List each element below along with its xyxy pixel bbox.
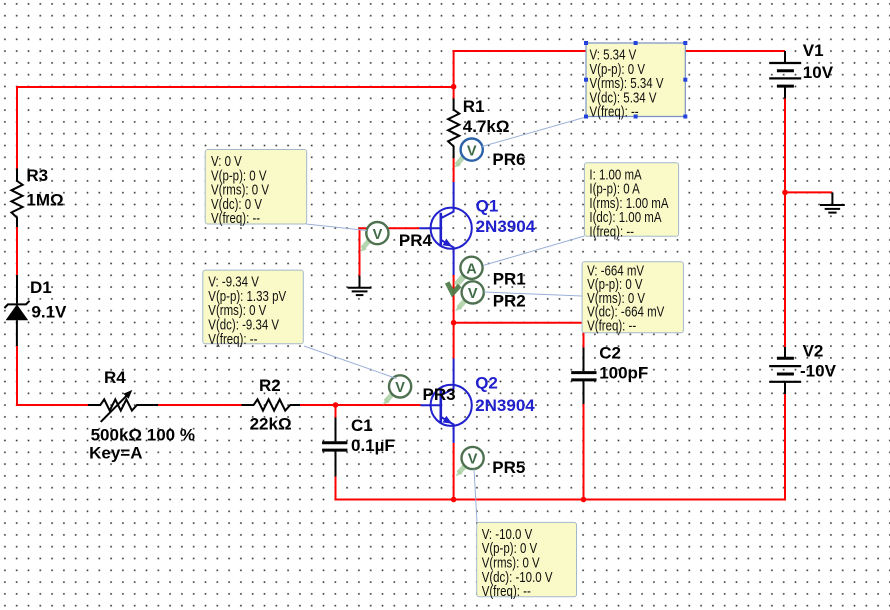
svg-text:V: V (467, 143, 477, 159)
probe readout PR1 box (584, 163, 678, 241)
svg-text:PR1: PR1 (493, 269, 526, 288)
battery V1 (784, 51, 786, 63)
svg-text:1MΩ: 1MΩ (26, 191, 63, 210)
resistor R3 (11, 169, 22, 228)
junction node C1 top (333, 402, 339, 408)
wire V1 bottom to ground node (784, 99, 786, 193)
svg-text:PR5: PR5 (492, 458, 525, 477)
svg-text:I(freq): --: I(freq): -- (589, 224, 634, 241)
svg-text:C1: C1 (351, 416, 373, 435)
svg-text:PR4: PR4 (399, 231, 433, 250)
svg-text:-10V: -10V (800, 362, 837, 381)
svg-text:100pF: 100pF (599, 364, 648, 383)
junction node bottom rail C2 (581, 497, 587, 503)
wire ground node to V2 (784, 192, 786, 347)
callout line PR5 (474, 469, 477, 522)
wire R1 bottom to Q1 collector (453, 158, 455, 182)
svg-text:Key=A: Key=A (89, 444, 142, 463)
wire Q1 emitter node (453, 275, 455, 323)
svg-text:C2: C2 (599, 344, 621, 363)
resistor R1 (448, 99, 459, 159)
junction node R1 top (451, 84, 457, 90)
svg-text:V(freq): --: V(freq): -- (208, 331, 257, 348)
probe PR1 attach arrow (456, 276, 464, 285)
svg-text:2N3904: 2N3904 (475, 396, 535, 415)
svg-text:4.7kΩ: 4.7kΩ (463, 117, 510, 136)
probe PR5 (462, 447, 484, 469)
wire R4 to R2 (158, 404, 242, 406)
wire R2 to Q2 base (300, 404, 421, 406)
wire top-left rail (17, 87, 454, 169)
probe PR4 attach (363, 240, 370, 249)
svg-text:A: A (466, 262, 477, 278)
probe PR2 attach (459, 301, 466, 309)
wire C2 bottom (583, 404, 585, 500)
ground (Q1 base) (348, 276, 372, 296)
wire Q2 emitter to bottom rail (453, 443, 455, 500)
probe readout PR4 box (205, 150, 307, 228)
transistor Q2 (421, 359, 472, 444)
capacitor C1 (335, 418, 337, 442)
svg-text:R1: R1 (463, 97, 485, 116)
probe PR3 attach (386, 394, 393, 402)
junction node V1 ground (782, 190, 788, 196)
svg-text:V: V (395, 380, 405, 396)
probe PR6 (461, 139, 483, 161)
svg-text:0.1µF: 0.1µF (351, 436, 395, 455)
callout line PR3 (304, 346, 397, 379)
svg-text:V(freq): --: V(freq): -- (590, 104, 639, 121)
svg-text:V(freq): --: V(freq): -- (482, 583, 531, 600)
svg-text:V(freq): --: V(freq): -- (587, 317, 636, 334)
capacitor C2 (583, 348, 585, 372)
svg-text:R2: R2 (259, 376, 281, 395)
svg-text:V1: V1 (803, 41, 824, 60)
svg-text:V(freq): --: V(freq): -- (211, 210, 260, 227)
svg-text:Q1: Q1 (476, 196, 499, 215)
probe PR3 (389, 375, 411, 397)
callout line PR2 (484, 292, 582, 296)
probe PR5 attach (459, 466, 466, 473)
svg-text:V2: V2 (803, 341, 824, 360)
svg-text:PR2: PR2 (493, 292, 526, 311)
probe readout PR5 box (477, 522, 577, 600)
junction node bottom rail Q2 (451, 497, 457, 503)
svg-text:Q2: Q2 (475, 374, 498, 393)
svg-text:10V: 10V (803, 63, 834, 82)
svg-text:R4: R4 (104, 368, 126, 387)
wire left vertical D1 to bottom rail and to R4 (17, 346, 88, 405)
probe PR6 attach (457, 157, 464, 166)
wire mid rail to C2 (454, 323, 584, 348)
zener diode D1 (16, 275, 18, 303)
probe PR2 (462, 281, 484, 303)
wire left vertical between R3 and D1 (16, 227, 18, 275)
resistor R2 (242, 399, 301, 410)
svg-text:PR3: PR3 (423, 385, 456, 404)
battery V2 (784, 347, 786, 358)
wire Q1 base (360, 228, 420, 275)
callout line PR4 (306, 224, 367, 231)
callout line PR1 (483, 236, 584, 266)
svg-text:PR6: PR6 (492, 150, 525, 169)
wire bottom rail (336, 394, 786, 500)
svg-text:2N3904: 2N3904 (476, 217, 536, 236)
svg-text:22kΩ: 22kΩ (250, 414, 292, 433)
svg-text:V: V (468, 286, 478, 302)
svg-text:500kΩ 100 %: 500kΩ 100 % (91, 426, 195, 445)
ground (V1 node) (820, 192, 845, 212)
wire Q2 collector (453, 323, 455, 359)
svg-text:V: V (468, 452, 478, 468)
svg-text:D1: D1 (30, 278, 52, 297)
probe PR4 (366, 222, 388, 244)
wire junction to C1 top (335, 404, 337, 418)
svg-text:9.1V: 9.1V (31, 302, 67, 321)
probe readout PR2 box (582, 262, 683, 335)
transistor Q1 (419, 182, 472, 275)
potentiometer R4 (88, 399, 158, 410)
probe PR1 (460, 257, 482, 279)
svg-text:V: V (373, 227, 383, 243)
junction node Q1 emitter / Q2 collector (451, 320, 457, 326)
callout line PR6 (482, 117, 586, 147)
probe readout PR3 box (203, 270, 303, 348)
wire R1 top and top rail to V1 (454, 51, 785, 99)
wire ground branch (785, 191, 832, 193)
probe readout PR6 box (selected) (584, 41, 687, 121)
svg-text:R3: R3 (26, 166, 48, 185)
